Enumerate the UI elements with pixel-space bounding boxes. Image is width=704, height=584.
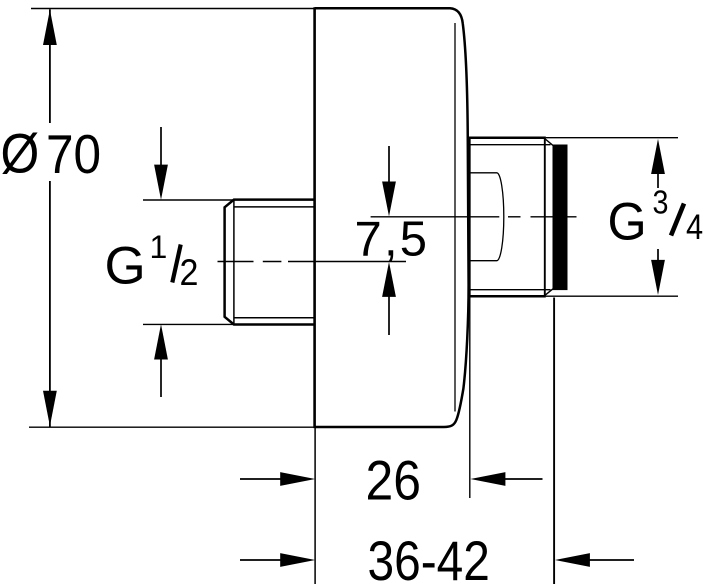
svg-text:70: 70 [46,124,101,185]
G3/4 arrow down [651,260,665,295]
dia70 arrow up [43,10,57,45]
G3/4 nipple bottom edge [470,295,546,298]
26 arrow right [280,472,315,486]
G3/4 arrow up [651,139,665,174]
G3/4 nipple top edge [470,136,546,139]
G3/4 bottom extension line [546,295,678,297]
svg-text:G: G [105,237,146,296]
G3/4 chamfer top diagonal [545,139,553,146]
top extension line (dia 70) [31,8,315,10]
svg-text:4: 4 [686,207,703,246]
26 right arrow shaft [504,478,542,480]
G1/2 bottom extension line [143,323,234,325]
body left edge [313,7,316,428]
left axis centerline long dash / 7.5 lower dimension line [288,261,406,263]
36-42 right arrow shaft [589,559,634,561]
svg-text:Ø: Ø [1,123,40,185]
G3/4 top extension line [546,137,678,139]
svg-text:7,5: 7,5 [355,213,430,267]
7.5 upper dimension line / right axis solid segment [371,216,500,218]
7.5 lower arrow shaft [388,296,390,335]
body outline (escutcheon side view) [315,8,469,427]
fraction slash (G1/2) [172,245,180,283]
right axis centerline dash [508,216,521,218]
26 arrow left [470,472,505,486]
G1/2 arrow down (above) [154,165,168,200]
G1/2 thread chamfer bottom line [234,317,315,319]
G1/2 thread chamfer top line [234,206,315,208]
G1/2 arrow up (below) [154,324,168,359]
G1/2 thread outline [225,200,315,325]
dia70 dimension line lower [49,181,51,427]
fraction slash (G3/4) [671,204,684,236]
left axis centerline dash 2 [263,261,282,263]
36-42 left arrow shaft [240,559,281,561]
body face inner edge [454,23,456,412]
svg-text:26: 26 [366,450,421,512]
G3/4 nipple left edge [469,137,471,298]
36-42 arrow left [555,553,590,567]
G1/2 thread chamfer vertical line [233,200,235,325]
dia70 dimension line upper [49,9,51,123]
G1/2 lower arrow shaft [160,359,162,398]
gasket seal (black band) [553,145,568,291]
7.5 arrow down [382,182,396,217]
left axis centerline dash 1 [218,261,254,263]
7.5 upper arrow shaft [388,146,390,183]
bore recess outline [470,173,504,261]
dia70 arrow down [43,391,57,426]
G1/2 top extension line [143,199,234,201]
bottom extension line (dia 70) [29,426,315,428]
36-42 arrow right [280,553,315,567]
body left edge extension below [314,428,316,584]
svg-text:36-42: 36-42 [368,531,490,584]
7.5 arrow up [382,262,396,297]
G3/4 nipple right face [544,137,546,298]
G1/2 upper arrow shaft [160,127,162,166]
26 left arrow shaft [240,478,281,480]
svg-text:2: 2 [180,251,199,293]
G3/4 upper arrow shaft [657,173,659,188]
svg-text:G: G [608,191,647,250]
36-42 extension line (gasket face) [553,298,555,584]
26 extension line (nipple left) [469,297,471,498]
G3/4 chamfer top line [470,144,551,146]
G3/4 lower arrow shaft [657,249,659,261]
right axis centerline long dash [531,216,577,218]
G3/4 chamfer bottom line [470,289,551,291]
svg-text:3: 3 [653,184,669,221]
G3/4 chamfer bottom diagonal [545,289,553,296]
svg-text:1: 1 [150,229,168,265]
